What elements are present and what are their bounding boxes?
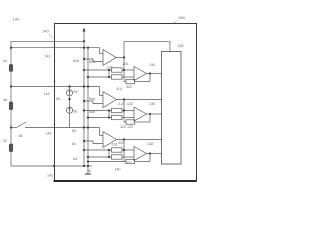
resistor box ch2 lower	[112, 115, 123, 119]
svg-text:122: 122	[127, 102, 133, 106]
svg-text:120: 120	[127, 125, 133, 129]
svg-text:140: 140	[42, 29, 49, 34]
supply arrow up	[83, 30, 85, 41]
svg-text:134: 134	[149, 63, 155, 67]
node busA-tap3	[83, 85, 85, 87]
cell B1	[9, 65, 12, 72]
svg-text:320: 320	[118, 141, 124, 145]
U1 output wire	[116, 57, 124, 59]
node shunt top	[68, 85, 70, 87]
svg-text:54a: 54a	[89, 97, 95, 101]
svg-text:46: 46	[3, 98, 7, 102]
leader tick for 148	[174, 20, 177, 23]
op-amp U3	[103, 92, 117, 108]
svg-text:58: 58	[73, 110, 77, 114]
switch SW1	[11, 127, 17, 129]
converter block 130	[162, 52, 182, 165]
op-amp U6	[134, 147, 147, 161]
node busA-switch	[83, 126, 85, 128]
op-amp U5	[103, 132, 117, 148]
outer box 102	[55, 24, 197, 182]
svg-text:144: 144	[44, 92, 50, 96]
U2 output wire	[147, 73, 162, 75]
svg-text:142: 142	[45, 55, 51, 59]
op-amp U4	[134, 107, 147, 121]
svg-text:100: 100	[13, 17, 20, 22]
U1 lower input	[84, 59, 103, 62]
battery rail (left vertical wire)	[10, 41, 12, 166]
shunt source S1 (circle)	[66, 90, 72, 96]
svg-text:141: 141	[47, 173, 53, 177]
U3 lower input	[84, 101, 103, 104]
node busB-tap2	[87, 47, 89, 49]
svg-text:44: 44	[3, 59, 7, 63]
svg-text:138: 138	[147, 142, 153, 146]
U1 input feed from tap1	[99, 48, 101, 54]
svg-text:140: 140	[115, 168, 121, 172]
svg-text:116: 116	[120, 125, 126, 129]
channel 2 upper feed	[123, 100, 125, 111]
channel 1 upper feed	[123, 58, 125, 71]
resistor box ch3 upper	[112, 148, 123, 152]
U2 feedback loop	[123, 70, 125, 82]
feedback resistor ch1	[126, 79, 135, 83]
U5 upper input	[99, 128, 101, 136]
svg-text:62: 62	[72, 142, 76, 146]
U3 upper input	[99, 87, 101, 96]
op-amp U2	[134, 67, 147, 81]
channel 3 upper feed	[123, 140, 125, 151]
svg-text:148: 148	[178, 15, 185, 20]
wire bottom return y166	[11, 165, 92, 167]
channel 3 lower feed from bus	[88, 156, 112, 158]
node shunt mid	[68, 98, 70, 100]
svg-text:40: 40	[87, 169, 91, 173]
node busA-bottom	[83, 165, 85, 167]
cell B3	[9, 144, 12, 152]
leader tick for 140	[49, 34, 53, 39]
svg-text:60: 60	[72, 129, 76, 133]
svg-text:143: 143	[46, 132, 52, 136]
channel 2 lower feed from bus	[88, 117, 112, 119]
svg-text:52a: 52a	[73, 59, 79, 63]
svg-text:121: 121	[126, 161, 132, 165]
node rail-tap2	[10, 47, 12, 49]
wire tap1 y41	[11, 40, 84, 42]
U5 output wire	[117, 139, 162, 141]
cell B2	[9, 102, 12, 110]
svg-text:56: 56	[56, 97, 60, 101]
U6 output wire	[147, 153, 162, 155]
U4 output wire	[147, 113, 162, 115]
wire tap3 y86.5	[11, 86, 100, 88]
node busB-tap3	[87, 85, 89, 87]
U4 feedback loop	[123, 111, 125, 123]
wire tap2 y48	[11, 47, 100, 49]
ch3 divider vertical	[108, 150, 110, 157]
resistor box ch1 lower	[112, 75, 123, 79]
channel 1 lower feed from bus	[88, 76, 112, 78]
svg-text:48: 48	[19, 134, 23, 138]
node busA-tap1	[83, 40, 85, 42]
feedback resistor ch3	[126, 159, 135, 163]
svg-text:322: 322	[126, 85, 132, 89]
node at box edge	[53, 165, 55, 167]
U3 output wire	[117, 99, 162, 101]
svg-text:136: 136	[149, 102, 155, 106]
svg-text:- 131: - 131	[110, 143, 118, 147]
ch1 divider vertical	[108, 70, 110, 77]
node rail-tap3	[10, 85, 12, 87]
svg-text:- 124: - 124	[117, 102, 125, 106]
resistor box ch3 lower	[112, 155, 123, 159]
U5 lower input	[84, 141, 103, 144]
svg-text:54: 54	[74, 90, 78, 94]
svg-text:42: 42	[3, 139, 7, 143]
resistor box ch1 upper	[112, 68, 123, 72]
svg-text:64: 64	[73, 157, 77, 161]
resistor box ch2 upper	[112, 108, 123, 112]
svg-text:52b: 52b	[89, 60, 95, 64]
bus A vertical x84	[83, 41, 85, 166]
svg-text:251: 251	[123, 62, 129, 66]
wire to converter top	[123, 41, 125, 57]
feedback resistor ch2	[126, 120, 135, 124]
svg-text:130: 130	[177, 43, 184, 48]
ground stub	[87, 166, 89, 174]
outer box bottom thick edge	[54, 180, 197, 182]
svg-text:114: 114	[116, 87, 122, 91]
node busB-bottom	[87, 165, 89, 167]
op-amp U1	[103, 50, 116, 66]
node rail-switch	[10, 126, 12, 128]
bus B vertical x88	[87, 48, 89, 166]
ch2 divider vertical	[108, 111, 110, 118]
shunt source S2 (circle)	[66, 107, 72, 113]
U6 feedback loop	[123, 150, 125, 162]
